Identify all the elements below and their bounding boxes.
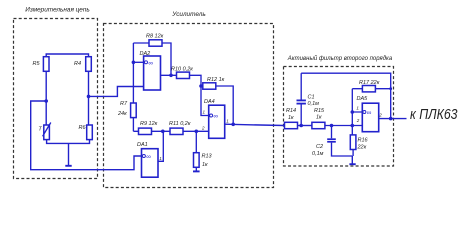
wire DA2 feedback vertical (through R7) [132, 43, 134, 131]
label: Измерительная цепь [25, 7, 90, 14]
label DA5 [357, 96, 369, 102]
node R11-pin2 junction [195, 130, 199, 134]
svg-text:0,1м: 0,1м [312, 151, 324, 157]
label R9 12k [140, 121, 158, 127]
wire R8 feedback loop [133, 43, 171, 75]
label DA2 [140, 51, 151, 57]
svg-text:∞: ∞ [213, 113, 218, 120]
svg-text:1: 1 [226, 118, 229, 123]
pin label 2 (DA5) [356, 118, 360, 123]
node C1 branch [299, 124, 303, 128]
node DA5 output junction [389, 117, 393, 121]
pin label 1 (DA5) [356, 106, 359, 111]
label DA4 [204, 99, 215, 105]
op-amp DA1 [142, 149, 159, 178]
label R10 0,2k [171, 67, 193, 73]
svg-text:0,1м: 0,1м [308, 101, 320, 107]
svg-text:22к: 22к [357, 144, 367, 150]
svg-text:∞: ∞ [146, 154, 151, 161]
resistor R9 [139, 128, 152, 134]
resistor R14 [285, 122, 298, 128]
wire R10 to DA4 pin1 [190, 75, 209, 115]
label R15 1k [314, 108, 325, 121]
svg-text:DA1: DA1 [137, 142, 148, 148]
wire DA5 output [379, 118, 407, 120]
label R4 [74, 61, 81, 67]
resistor R13 [194, 153, 200, 168]
svg-text:R13: R13 [202, 154, 213, 160]
node R17 right junction [389, 87, 392, 90]
label R12 1k [207, 77, 225, 83]
svg-text:DA4: DA4 [204, 99, 215, 105]
wire R17 feedback loop [352, 88, 390, 90]
label R11 0,2k [169, 121, 191, 127]
resistor R6 [87, 125, 93, 140]
wire bridge right vertical [88, 71, 90, 125]
active filter dashed box [284, 67, 394, 167]
bridge top rail wire [46, 54, 88, 71]
wire bridge right output to DA2 [89, 87, 144, 97]
op-amp DA5 [362, 103, 378, 132]
label DA1 [137, 142, 148, 148]
label R5 [33, 61, 41, 67]
svg-text:R9 12к: R9 12к [140, 121, 158, 127]
label C1 0,1m [308, 94, 320, 107]
label T [38, 126, 42, 132]
resistor R15 [312, 122, 325, 128]
svg-text:R10 0,2к: R10 0,2к [171, 67, 193, 73]
op-amp DA2 [144, 56, 161, 90]
label R7 24k [117, 101, 128, 117]
svg-text:R6: R6 [79, 125, 87, 131]
wire R16 bottom [352, 150, 354, 157]
svg-text:R15: R15 [314, 108, 325, 114]
capacitor C1 [297, 73, 306, 125]
resistor R7 [131, 103, 137, 118]
pin 1 mark DA4 output [226, 118, 229, 123]
svg-text:1к: 1к [202, 162, 208, 168]
svg-text:1: 1 [203, 110, 206, 115]
svg-text:R12 1к: R12 1к [207, 77, 225, 83]
svg-text:R7: R7 [120, 101, 128, 107]
svg-text:R4: R4 [74, 61, 81, 67]
svg-text:C2: C2 [316, 144, 323, 150]
bridge bottom rail wire [47, 140, 90, 144]
svg-text:DA2: DA2 [140, 51, 151, 57]
svg-text:24к: 24к [117, 111, 127, 117]
wire R13 branch [195, 131, 197, 152]
wire DA2 output [161, 74, 178, 76]
svg-text:2: 2 [201, 126, 205, 131]
svg-text:∞: ∞ [148, 60, 153, 67]
svg-text:1: 1 [356, 106, 359, 111]
ground (R13) [193, 167, 200, 171]
label C2 0,1m [312, 144, 324, 157]
node DA2 input [132, 61, 136, 65]
node R12 branch [199, 84, 203, 88]
wire bridge left output to DA1 [31, 101, 142, 170]
svg-text:Усилитель: Усилитель [171, 11, 205, 18]
label к ПЛК63 [410, 106, 458, 123]
resistor R8 [149, 40, 162, 46]
resistor R12 [203, 83, 216, 89]
svg-text:∞: ∞ [367, 110, 372, 117]
label R17 22k [359, 80, 380, 86]
resistor R4 [86, 57, 92, 72]
svg-text:1к: 1к [288, 115, 294, 121]
resistor R10 [177, 72, 190, 78]
svg-text:1: 1 [159, 156, 162, 161]
ground (filter) [349, 156, 355, 164]
wire lower chain R9 R11 [133, 130, 208, 132]
wire R15 to DA5 [325, 89, 362, 136]
wire DA1 feedback vertical [158, 131, 163, 161]
svg-text:C1: C1 [308, 94, 315, 100]
svg-text:R17 22к: R17 22к [359, 80, 380, 86]
svg-text:к ПЛК63: к ПЛК63 [410, 106, 458, 123]
svg-text:T: T [38, 126, 42, 132]
svg-text:2: 2 [356, 118, 360, 123]
resistor R11 [170, 128, 183, 134]
ground (bridge) [65, 143, 71, 165]
resistor R16 [350, 135, 356, 150]
svg-text:R14: R14 [286, 108, 296, 114]
node bridge right output [87, 95, 91, 99]
svg-text:Активный фильтр второго порядк: Активный фильтр второго порядка [287, 55, 393, 62]
svg-text:R16: R16 [358, 137, 369, 143]
thermistor T [43, 123, 51, 140]
svg-text:Измерительная цепь: Измерительная цепь [25, 7, 90, 14]
wire R14 to R15 [298, 125, 313, 127]
pin label 2 (DA4) [201, 126, 205, 131]
resistor R17 [362, 86, 375, 92]
node DA2 output junction [169, 74, 173, 78]
capacitor C2 [327, 126, 352, 157]
svg-text:2: 2 [378, 112, 382, 117]
node C2 branch [330, 124, 334, 128]
label: Активный фильтр второго порядка [287, 55, 393, 62]
wire R12 feedback loop [201, 86, 233, 124]
wire bridge left vertical [45, 71, 47, 125]
node bridge left output [44, 99, 48, 103]
wire C1 top feedback [301, 73, 391, 118]
wire DA2 inverting input [133, 61, 143, 63]
pin 1 mark DA1 output [159, 156, 162, 161]
node DA5 pin1 branch [351, 110, 355, 114]
label R6 [79, 125, 87, 131]
label R16 22k [357, 137, 369, 150]
node DA4 output junction [231, 123, 235, 127]
amplifier dashed box [104, 24, 274, 188]
resistor R5 [43, 57, 49, 72]
label R14 1k [286, 108, 296, 121]
svg-text:R5: R5 [33, 61, 41, 67]
op-amp DA4 [209, 105, 225, 138]
svg-text:R8 12к: R8 12к [146, 34, 164, 40]
label R8 12k [146, 34, 164, 40]
pin mark DA5 output [378, 112, 382, 117]
svg-text:DA5: DA5 [357, 96, 369, 102]
measuring circuit dashed box [14, 19, 98, 179]
wire DA4 output [225, 124, 285, 125]
node R9-R11 junction [161, 130, 165, 134]
label R13 1k [202, 154, 213, 169]
label: Усилитель [171, 11, 205, 18]
pin label 1 (DA4) [203, 110, 206, 115]
node DA5 pin2 main line junction [351, 124, 355, 128]
svg-text:1к: 1к [316, 115, 322, 121]
svg-text:R11 0,2к: R11 0,2к [169, 121, 191, 127]
